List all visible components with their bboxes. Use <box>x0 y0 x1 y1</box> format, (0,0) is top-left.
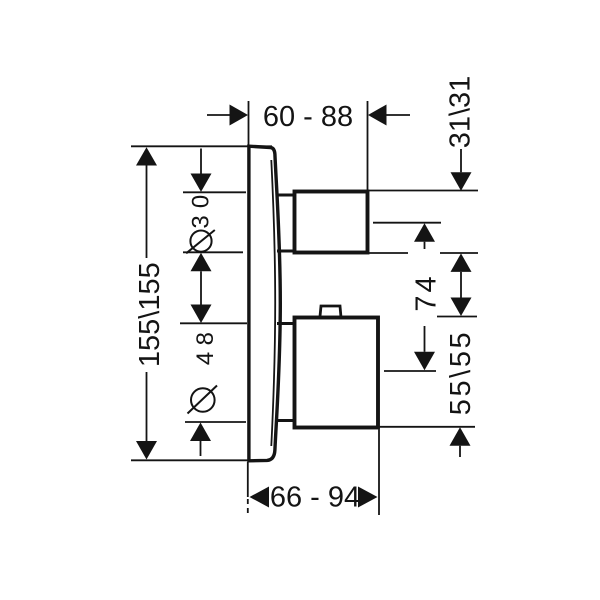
arrowhead 60-88 right <box>368 105 387 126</box>
arrowhead 60-88 left <box>230 105 249 126</box>
diameter symbol of D30 <box>190 231 211 252</box>
dim 66-94 left extension line solid part <box>247 462 249 497</box>
arrowhead 66-94 right <box>358 487 378 508</box>
arrowhead 55 top <box>451 298 472 317</box>
svg-text:74: 74 <box>410 273 442 311</box>
dim D30 top extension line <box>183 191 246 193</box>
svg-text:60 - 88: 60 - 88 <box>263 101 353 133</box>
arrowhead 74 bottom <box>414 352 435 371</box>
svg-text:155\155: 155\155 <box>134 262 166 367</box>
svg-text:55\55: 55\55 <box>445 330 477 416</box>
svg-text:3: 3 <box>188 215 215 228</box>
dim 74 bottom extension line <box>384 370 436 372</box>
dim 55 bottom tail <box>459 446 461 457</box>
dim 155 bottom extension line <box>131 459 248 461</box>
dim 31-55 middle tail <box>460 272 462 298</box>
dim D30-D48 middle tail <box>200 271 202 304</box>
svg-text:31\31: 31\31 <box>445 76 477 149</box>
dim 60-88 left tail <box>207 114 232 116</box>
lower stem top edge <box>277 322 296 325</box>
svg-text:0: 0 <box>188 195 215 208</box>
dim 31 upper tail <box>460 149 462 172</box>
dim 155 top extension line <box>131 145 272 147</box>
dim 60-88 right tail <box>384 114 410 116</box>
dim D48 top extension line <box>180 322 247 324</box>
escutcheon plate inner face line <box>271 160 275 446</box>
arrowhead 155 top <box>136 147 157 165</box>
dim D48 bottom tail <box>200 441 202 456</box>
arrowhead D30 top <box>191 174 212 192</box>
svg-text:66 - 94: 66 - 94 <box>270 482 360 514</box>
arrowhead D30 bottom <box>191 253 212 271</box>
dim 55 top extension line <box>437 316 477 318</box>
svg-text:4: 4 <box>192 352 219 365</box>
dim 60-88 left extension line <box>248 101 250 146</box>
dim 31 bottom extension line segment b <box>440 252 478 254</box>
lower handle tab <box>320 306 341 318</box>
arrowhead D48 top <box>191 305 212 324</box>
arrowhead D48 bottom <box>190 423 211 442</box>
arrowhead 31 bottom <box>451 253 472 272</box>
lower stem bottom edge <box>277 419 296 422</box>
dim 155 line upper segment <box>146 166 148 259</box>
dim D48 bottom extension line <box>185 421 246 423</box>
dim 74 top extension line <box>373 222 441 224</box>
arrowhead 66-94 left <box>250 487 270 508</box>
lower handle <box>295 318 379 428</box>
dim D30 upper tail <box>200 149 202 174</box>
svg-text:8: 8 <box>192 332 219 345</box>
diameter symbol of D48 <box>191 388 215 412</box>
dim 60-88 right extension line <box>367 101 369 191</box>
arrowhead 155 bottom <box>136 441 157 460</box>
dim 66-94 right extension line <box>378 430 380 516</box>
escutcheon plate outline <box>249 146 280 461</box>
arrowhead 74 top <box>414 223 435 242</box>
dim 55 bottom extension line <box>379 426 475 428</box>
dim 66-94 left extension line dashed part <box>247 499 249 516</box>
upper handle <box>295 192 368 253</box>
arrowhead 55 bottom <box>450 427 471 446</box>
dim 155 line lower segment <box>146 372 148 441</box>
upper stem bottom edge <box>277 250 296 253</box>
dim 74 lower tail <box>424 326 426 352</box>
dim 31 bottom extension line segment a <box>368 252 408 254</box>
dim 31 top extension line <box>368 190 478 192</box>
dim 74 upper tail <box>424 242 426 249</box>
dim D30 bottom extension line <box>183 251 243 253</box>
upper stem top edge <box>277 194 296 197</box>
arrowhead 31 top <box>451 172 472 191</box>
